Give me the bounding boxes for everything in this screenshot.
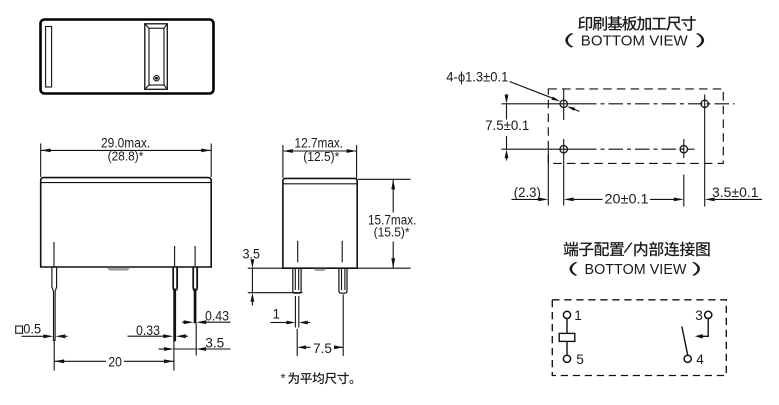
PCB layout title [578, 16, 695, 31]
front view: dimension 29.0max [41, 136, 212, 177]
svg-text:(28.8)*: (28.8)* [108, 149, 144, 163]
relay top view: case outline [41, 20, 214, 94]
front view: relay body [41, 178, 212, 267]
wire terminal 1 to coil [566, 318, 568, 333]
PCB: centerline bottom hole row [502, 148, 695, 150]
svg-text:20±0.1: 20±0.1 [605, 192, 649, 207]
PCB: hole bottom-right [680, 139, 687, 207]
svg-text:3.5±0.1: 3.5±0.1 [712, 185, 759, 200]
top view: pin head circle [154, 76, 159, 81]
terminal title open paren [570, 262, 578, 276]
svg-text:0.5: 0.5 [23, 322, 41, 337]
PCB: dimension 7.5 +-0.1 [485, 94, 529, 161]
terminal 4 [684, 352, 704, 367]
svg-text:(2.3): (2.3) [514, 185, 541, 200]
svg-text:(15.5)*: (15.5)* [374, 225, 410, 239]
PCB: dimension 20 +-0.1 [564, 192, 684, 207]
PCB: centerline top hole row [502, 103, 735, 105]
front view: internal pin lines [54, 242, 195, 266]
front view: dimension 0.33 pin width [128, 323, 189, 338]
side view: dimension 3.5 standoff [243, 246, 261, 305]
side view: seating plane line [248, 267, 411, 269]
svg-text:*: * [281, 371, 286, 386]
PCB: dimension (2.3) [512, 185, 549, 202]
svg-text:4-ϕ1.3±0.1: 4-ϕ1.3±0.1 [446, 69, 508, 84]
side view: dimension 12.7max [283, 135, 357, 178]
svg-text:20: 20 [108, 355, 122, 370]
front view: middle pin [173, 267, 178, 341]
svg-text:3: 3 [695, 308, 703, 323]
svg-text:3.5: 3.5 [243, 246, 261, 261]
side view: dimension 15.7max height [358, 179, 417, 268]
note: average dimensions [281, 371, 286, 386]
svg-text:1: 1 [273, 307, 281, 322]
terminal 3 [695, 308, 712, 323]
side view: bottom notch [313, 269, 326, 271]
svg-text:(12.5)*: (12.5)* [303, 150, 339, 164]
side view: pin tip reference line [248, 292, 303, 294]
PCB: hole top-right [701, 95, 708, 207]
wire coil to terminal 5 [566, 341, 568, 355]
front view: right pin [193, 267, 198, 323]
svg-text:0.33: 0.33 [136, 323, 160, 338]
side view: dimension 1 pin thickness [271, 296, 311, 328]
terminal diagram title part1 [564, 242, 624, 257]
svg-text:0.43: 0.43 [205, 308, 229, 323]
side view: internal pin lines [298, 241, 343, 262]
side view: dimension 7.5 pin pitch [297, 295, 343, 357]
wire from terminal 3 with arrow [695, 318, 708, 338]
front view: dimension 3.5 pin pitch [159, 323, 231, 355]
PCB: extension line left edge [547, 150, 549, 206]
terminal 1 [563, 308, 581, 323]
PCB: dimension 3.5 +-0.1 [705, 185, 762, 202]
side view: relay body [283, 178, 357, 268]
switch blade [682, 327, 688, 356]
front view: bottom notch [107, 268, 131, 271]
PCB: leader 4-dia1.3 [446, 69, 579, 111]
terminal title close paren [692, 262, 700, 276]
svg-text:12.7max.: 12.7max. [295, 135, 344, 150]
terminal 5 [563, 352, 583, 367]
terminal diagram: dashed outline [552, 300, 726, 376]
terminal diagram title part2 [634, 241, 709, 256]
svg-text:1: 1 [574, 308, 582, 323]
PCB: hole bottom-left [560, 139, 567, 206]
svg-text:5: 5 [576, 352, 584, 367]
terminal title slash [624, 243, 631, 253]
coil [559, 333, 575, 341]
PCB title open paren [565, 33, 573, 47]
note text [288, 372, 353, 384]
top view: armature recess outer [145, 24, 168, 90]
PCB: mounting holes dashed board outline [548, 89, 723, 163]
top view: left slot [46, 27, 52, 88]
svg-text:7.5: 7.5 [313, 341, 332, 356]
svg-text:7.5±0.1: 7.5±0.1 [485, 118, 529, 133]
side view: right pin [339, 268, 347, 293]
front view: dimension square 0.5 pin width [16, 322, 68, 339]
front view: left pin (terminal) [52, 267, 57, 340]
svg-text:3.5: 3.5 [205, 335, 224, 350]
PCB: hole top-left [560, 89, 567, 120]
front view: dimension 0.43 pin width [182, 308, 231, 324]
side view: left pin [293, 268, 301, 293]
svg-text:BOTTOM VIEW: BOTTOM VIEW [581, 32, 689, 49]
front view: dimension 20 pin pitch [54, 341, 174, 371]
svg-text:BOTTOM VIEW: BOTTOM VIEW [585, 262, 687, 278]
svg-text:4: 4 [696, 352, 704, 367]
PCB title close paren [696, 33, 704, 47]
